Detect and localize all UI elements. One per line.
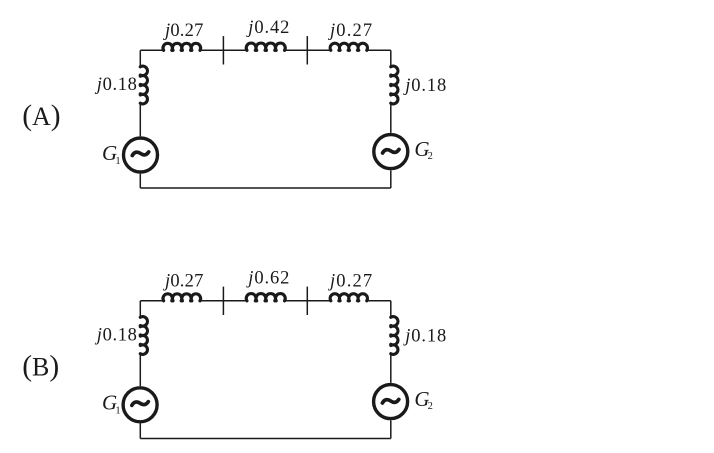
svg-text:j0.18: j0.18 [95,326,138,346]
svg-text:j0.27: j0.27 [163,21,204,41]
wire: top-left segment (B) [140,300,163,302]
wire: between L2 and L3 (B) [285,300,331,302]
source G2 circle (A) [374,135,408,169]
source G1 tilde (B) [132,402,148,406]
wire: bottom (B) [140,438,390,440]
svg-text:j0.18: j0.18 [403,327,447,347]
wire: right middle segment (B) [390,354,392,383]
wire: top-right segment (A) [367,49,391,51]
wire: top-left segment (A) [140,49,163,51]
inductor j0.18 (B right) [391,317,398,355]
inductor j0.27 (B top-right) [330,294,367,301]
source G1 circle (A) [124,138,158,172]
source G2 tilde (B) [382,399,398,403]
wire: top-right segment (B) [367,300,391,302]
tick mark 1 (A) [222,36,224,64]
wire: left lower segment (B) [139,424,141,439]
svg-text:j0.27: j0.27 [328,21,373,41]
wire: left upper segment (B) [139,301,141,318]
svg-text:1: 1 [115,156,120,167]
svg-text:j0.62: j0.62 [246,269,290,289]
svg-text:j0.27: j0.27 [163,272,204,292]
inductor j0.27 (B top-left) [163,294,201,301]
svg-text:1: 1 [115,406,120,417]
wire: right middle segment (A) [390,103,392,133]
circuit B [22,269,447,439]
inductor j0.62 (B top-middle) [246,294,285,301]
wire: between L2 and L3 (A) [285,49,331,51]
inductor j0.18 (A left) [140,66,147,104]
svg-text:j0.42: j0.42 [246,18,290,38]
svg-text:2: 2 [428,401,433,412]
svg-text:2: 2 [428,151,433,162]
inductor j0.18 (B left) [140,317,147,355]
wire: left lower segment (A) [139,174,141,188]
circuit A [22,18,447,188]
inductor j0.27 (A top-left) [163,43,201,50]
svg-text:j0.27: j0.27 [328,272,373,292]
inductor j0.18 (A right) [391,66,398,104]
wire: bottom (A) [140,187,390,189]
svg-text:(B): (B) [22,351,59,383]
source G1 tilde (A) [132,152,148,156]
tick mark 2 (A) [306,36,308,64]
wire: right lower segment (B) [390,420,392,438]
source G2 tilde (A) [383,149,399,153]
tick mark 2 (B) [306,287,308,315]
wire: left upper segment (A) [139,50,141,67]
source G1 circle (B) [123,388,157,422]
svg-text:(A): (A) [22,100,60,132]
wire: left middle segment (B) [139,354,141,386]
svg-text:j0.18: j0.18 [95,75,138,95]
wire: right upper segment (A) [390,50,392,67]
source G2 circle (B) [374,385,408,419]
wire: between L1 and L2 (B) [200,300,247,302]
svg-text:j0.18: j0.18 [403,76,447,96]
wire: left middle segment (A) [139,103,141,136]
inductor j0.42 (A top-middle) [246,43,285,50]
wire: right upper segment (B) [390,301,392,318]
wire: between L1 and L2 (A) [200,49,247,51]
tick mark 1 (B) [222,287,224,315]
wire: right lower segment (A) [390,170,392,188]
inductor j0.27 (A top-right) [330,43,367,50]
